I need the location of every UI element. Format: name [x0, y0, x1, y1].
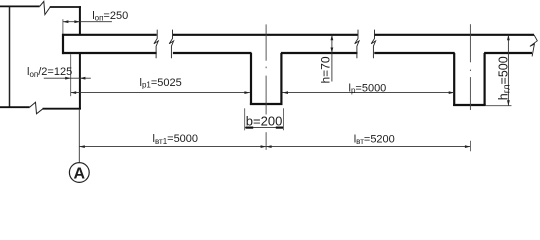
svg-text:lр1=5025: lр1=5025 [140, 77, 182, 90]
dimension b=200 extension lines [244, 108, 246, 130]
wire: wall bottom cut line left segment [0, 106, 30, 108]
svg-text:h=70: h=70 [319, 56, 333, 83]
dimension b=200 line [245, 127, 284, 129]
svg-text:lр=5000: lр=5000 [349, 82, 387, 95]
wire: slab top edge segment 2 [173, 34, 358, 36]
dimension hгл=500 line [507, 35, 509, 106]
wire: wall bottom cut line right segment [43, 108, 81, 110]
break mark pair B on slab [355, 30, 359, 59]
wire: slab bottom edge segment 2 [173, 52, 252, 54]
break mark pair A on slab [154, 30, 158, 59]
break mark at slab right end [530, 35, 537, 57]
wire: wall top cut line left segment [0, 5, 40, 7]
svg-text:А: А [74, 165, 86, 182]
rib (right beam) right edge [484, 53, 486, 106]
svg-text:lоп=250: lоп=250 [92, 10, 128, 23]
rib (middle beam) left edge [250, 53, 252, 105]
dimension loп=250 line [63, 21, 112, 23]
svg-text:lоп/2=125: lоп/2=125 [27, 66, 72, 79]
dimension hгл=500 arrows [507, 35, 510, 41]
dimension lр=5000 line [283, 92, 455, 94]
dimension h=70 arrows [331, 35, 334, 41]
wire: wall inner face below slab [79, 53, 81, 109]
wire: wall inner face above slab [79, 6, 81, 35]
svg-text:b=200: b=200 [246, 113, 283, 128]
wire: slab top edge segment 3 [374, 34, 534, 36]
rib (middle beam) bottom [250, 103, 283, 105]
dimension loп/2=125 line [44, 77, 91, 79]
centerline of right rib [469, 24, 471, 62]
slab left end cap [62, 34, 64, 54]
dimension b=200 tick marks [246, 126, 254, 128]
dimension loп/2=125 extension line (support middle) [70, 54, 72, 96]
dimension lвт1=5000 line [79, 146, 265, 148]
dimension lр=5000 arrows [283, 91, 289, 94]
wire: slab bottom edge segment 3 [281, 52, 358, 54]
wire: slab bottom edge segment 1 [62, 52, 157, 54]
dimension h=70 line [331, 35, 333, 82]
axis line A below wall [78, 109, 80, 163]
wire: slab top edge segment 1 [62, 34, 157, 36]
axis bubble A circle [69, 163, 89, 183]
svg-text:hгл=500: hгл=500 [497, 56, 513, 100]
dimension lр1=5025 arrows [71, 91, 77, 94]
dimension lвт arrows [79, 145, 85, 148]
dimension loп/2=125 arrows (outside) [65, 77, 71, 80]
svg-text:lвт1=5000: lвт1=5000 [153, 133, 199, 146]
dimension loп=250 arrows [63, 20, 69, 23]
dimension hгл=500 extension line [486, 105, 512, 107]
dimension loп=250 extension line [62, 19, 64, 33]
centerline of middle rib [265, 24, 267, 60]
wire: slab bottom edge segment 5 [484, 52, 532, 54]
rib (middle beam) right edge [280, 53, 282, 105]
dimension lвт=5200 line [266, 146, 470, 148]
wire: slab bottom edge segment 4 [374, 52, 454, 54]
wire: wall outer face [9, 6, 11, 107]
wire: wall top break lightning [40, 1, 51, 14]
dimension lвт right extension tick [469, 141, 471, 152]
wire: wall bottom break lightning [30, 102, 43, 114]
wire: wall top cut line right segment [50, 6, 81, 8]
dimension lр1=5025 line [71, 92, 250, 94]
rib (right beam) bottom [453, 104, 486, 106]
rib (right beam) left edge [453, 53, 455, 106]
svg-text:lвт=5200: lвт=5200 [354, 134, 395, 147]
